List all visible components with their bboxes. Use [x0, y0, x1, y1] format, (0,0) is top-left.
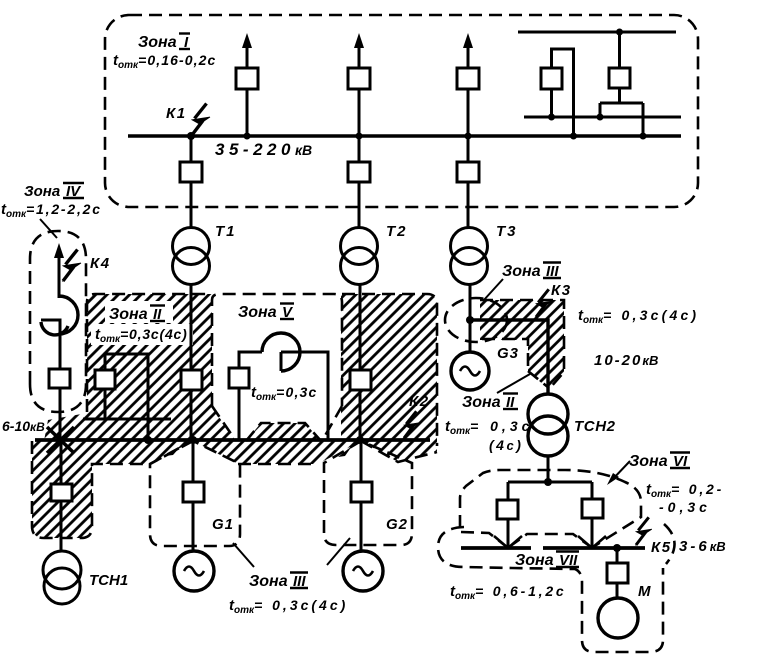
X junction at 6-10 bus left [47, 427, 74, 453]
breaker square subcircuit right [609, 68, 630, 88]
wire TCH2 split horizontal [508, 481, 592, 484]
T2 breaker below bus [348, 162, 370, 182]
K4 feeder wire [58, 270, 61, 298]
node T1 on 35-220 bus [187, 132, 195, 140]
below-bus dashed tongue edges mid [238, 463, 318, 466]
generator G3 [451, 352, 489, 390]
svg-text:Т3: Т3 [496, 223, 518, 240]
hatched region zone II left block [87, 294, 236, 441]
svg-text:Т1: Т1 [215, 223, 237, 240]
feeder 2 wire [358, 60, 361, 136]
wire K4 column to bus [59, 388, 62, 441]
zone III dashed boundary around G2 [324, 441, 412, 545]
hatched wedge left of capsule above bus [44, 413, 87, 441]
svg-text:Т2: Т2 [386, 223, 408, 240]
TCH1 column wire [60, 441, 63, 552]
svg-text:G1: G1 [212, 516, 234, 533]
fault K5 bolt [636, 517, 652, 545]
zone II left block dashed border [87, 294, 212, 412]
zone V dashed border [212, 294, 342, 406]
svg-text:К1: К1 [166, 105, 187, 122]
node T1/G1 on 6-10 bus [189, 436, 197, 444]
svg-text:Зона: Зона [629, 453, 668, 470]
svg-text:Зона: Зона [24, 183, 60, 200]
T2 column wire upper [358, 136, 361, 162]
svg-text:Зона: Зона [138, 34, 177, 51]
motor tap node [613, 544, 621, 552]
zone III dashed boundary around G1 [150, 441, 240, 546]
svg-text:Зона: Зона [109, 306, 148, 323]
fault K1 bolt [192, 104, 210, 136]
wire junction to TCH2 [470, 320, 548, 395]
node left CT on middle line [548, 114, 555, 121]
hatched island on bus inside zone V [246, 423, 321, 441]
bus 3-6 left [461, 546, 531, 550]
svg-text:Зона: Зона [249, 573, 288, 590]
svg-text:К5: К5 [651, 539, 672, 556]
node bracket wire on bus [640, 133, 647, 140]
K4 feeder arrow up [54, 243, 64, 277]
svg-text:Зона: Зона [238, 304, 277, 321]
junction V marks left [494, 536, 522, 548]
left branch wire [507, 482, 510, 548]
G1 column wire [192, 441, 195, 551]
transformer T2 [341, 228, 378, 285]
wire TCH2 down to junction [547, 456, 550, 482]
bus 3-6 right [543, 546, 645, 550]
svg-text:G2: G2 [386, 516, 408, 533]
junction V marks right [578, 536, 606, 548]
fault K2 bolt [404, 411, 419, 438]
T1 wire below transformer to 6-10 bus [190, 283, 193, 441]
transformer T3 [451, 228, 488, 285]
motor M circle [598, 598, 638, 638]
svg-text:ТСН2: ТСН2 [574, 418, 616, 435]
zone II right pointer [497, 374, 530, 393]
node feeder 1 on 35-220 bus [244, 133, 251, 140]
wire middle line [524, 116, 681, 119]
bus 6-10 kV [35, 438, 430, 442]
zone I dashed box [105, 15, 698, 207]
feeder 1 arrow [242, 33, 252, 67]
arrow mark on dashed diagonal near G1 junction [165, 446, 181, 456]
bus 35-220 kV [128, 134, 681, 138]
feeder 1 wires [246, 60, 249, 136]
T1 column wire upper [190, 136, 193, 162]
zone III right pointer [483, 279, 503, 301]
svg-text:Зона: Зона [502, 263, 541, 280]
T3 wire below transformer to junction [469, 283, 472, 322]
svg-text:К4: К4 [90, 255, 111, 272]
svg-text:Зона: Зона [515, 552, 554, 569]
T2 wire below transformer to 6-10 bus [359, 283, 362, 441]
node TCH2 split junction [544, 478, 552, 486]
svg-text:-0,3с: -0,3с [659, 499, 711, 515]
arrow mark on dashed diagonal near G2 junction [338, 446, 352, 457]
zone VII dashed boundary [438, 527, 663, 652]
left branch breaker [497, 500, 518, 519]
reactor in zone V loop [262, 333, 300, 371]
node T2/G2 on 6-10 bus [356, 436, 364, 444]
T3 column wire upper [467, 136, 470, 162]
svg-text:К2: К2 [409, 393, 430, 410]
T2 wire to transformer [358, 182, 361, 228]
wire left square to middle line [550, 89, 553, 117]
wire right square down with bracket [600, 88, 643, 136]
transformer TCH2 [528, 394, 568, 456]
T1 breaker below bus [180, 162, 202, 182]
svg-text:К3: К3 [551, 282, 572, 299]
T3 breaker below bus [457, 162, 479, 182]
T3 wire to transformer [467, 182, 470, 228]
TCH1 breaker [51, 484, 72, 501]
loop square [105, 354, 148, 440]
feeder 3 arrow [463, 33, 473, 67]
below-bus dashed boundary left lobe [32, 441, 192, 538]
motor wire [616, 548, 619, 599]
feeder 2 arrow [354, 33, 364, 67]
feeder 3 wire [467, 60, 470, 136]
loop wires [239, 352, 262, 368]
node bracket on middle line [597, 114, 604, 121]
wire loop of left CT square [552, 49, 574, 136]
reactor arcs in K4 column [59, 296, 78, 334]
fault K3 bolt [536, 289, 552, 317]
zone VI pointer arrow [611, 461, 630, 481]
node loop wire on bus [570, 133, 577, 140]
node zone II loop on 6-10 bus [144, 436, 152, 444]
wire T3 junction to G3 [469, 320, 472, 353]
feeder 3 breaker [457, 68, 479, 89]
G2 breaker [351, 482, 372, 502]
generator G1 [174, 551, 214, 591]
svg-text:Зона: Зона [462, 394, 501, 411]
node T3 on 35-220 bus [465, 133, 472, 140]
svg-text:М: М [638, 583, 651, 600]
loop breaker square [229, 368, 249, 388]
white backing for zone II t_otk label [91, 324, 193, 345]
node T2 on 35-220 bus [356, 133, 363, 140]
svg-text:35-220кВ: 35-220кВ [215, 140, 312, 159]
generator G2 [343, 551, 383, 591]
feeder 1 breaker [236, 68, 258, 89]
island dashed edges [246, 423, 321, 441]
zone IV dashed capsule [30, 231, 86, 412]
G1 breaker [183, 482, 204, 502]
svg-text:ТСН1: ТСН1 [89, 572, 128, 589]
hatched region zone II right block [341, 294, 437, 441]
zone VI dashed boundary [460, 470, 641, 547]
hatched tongue below bus between G1 and G2 [193, 441, 361, 464]
feeder 2 breaker [348, 68, 370, 89]
transformer TCH1 [43, 551, 81, 604]
zone III pointer line right [327, 538, 350, 565]
below-bus dashed tongue right [361, 441, 437, 462]
zone IV pointer [40, 219, 57, 238]
right branch breaker [582, 499, 603, 518]
breaker square K4 column [49, 369, 70, 388]
zone III dashed circle right [445, 298, 507, 342]
svg-text:3-6кВ: 3-6кВ [679, 538, 726, 555]
wire top line [518, 31, 676, 34]
node on subcircuit top line [616, 29, 623, 36]
T1 wire to transformer [190, 182, 193, 228]
T2 column breaker above 6-10 bus [350, 370, 371, 390]
transformer T1 [173, 228, 210, 285]
right zone II hatch dashed border [480, 300, 564, 388]
wire right square to top line [618, 32, 621, 68]
zone V bottom-right diagonal [322, 406, 342, 441]
hatched block around K3/TCH2 wire (right zone II) [480, 300, 564, 389]
zone III pointer line left [233, 543, 254, 567]
zone VI / VII shared dashed border [461, 532, 591, 547]
zone V bottom-left diagonal [212, 406, 236, 441]
node T3/G3/TCH2 junction [466, 316, 474, 324]
zone VII dashed arc right of bus [664, 524, 675, 564]
right branch wire [591, 482, 594, 548]
white backing for zone II label [105, 301, 173, 323]
motor breaker [607, 563, 628, 583]
T1 column breaker above 6-10 bus [181, 370, 202, 390]
svg-text:G3: G3 [497, 345, 519, 362]
svg-text:10-20кВ: 10-20кВ [594, 352, 658, 369]
fault K4 bolt [63, 250, 81, 282]
hatched band below bus left with TCH1 lobe [32, 441, 193, 538]
zone II right block dashed border [342, 294, 437, 446]
svg-text:(4с): (4с) [489, 437, 523, 453]
breaker square subcircuit left [541, 68, 562, 89]
hatched tongue below bus right of G2 [361, 441, 437, 462]
G2 column wire [360, 441, 363, 551]
svg-text:6-10кВ: 6-10кВ [2, 418, 45, 434]
